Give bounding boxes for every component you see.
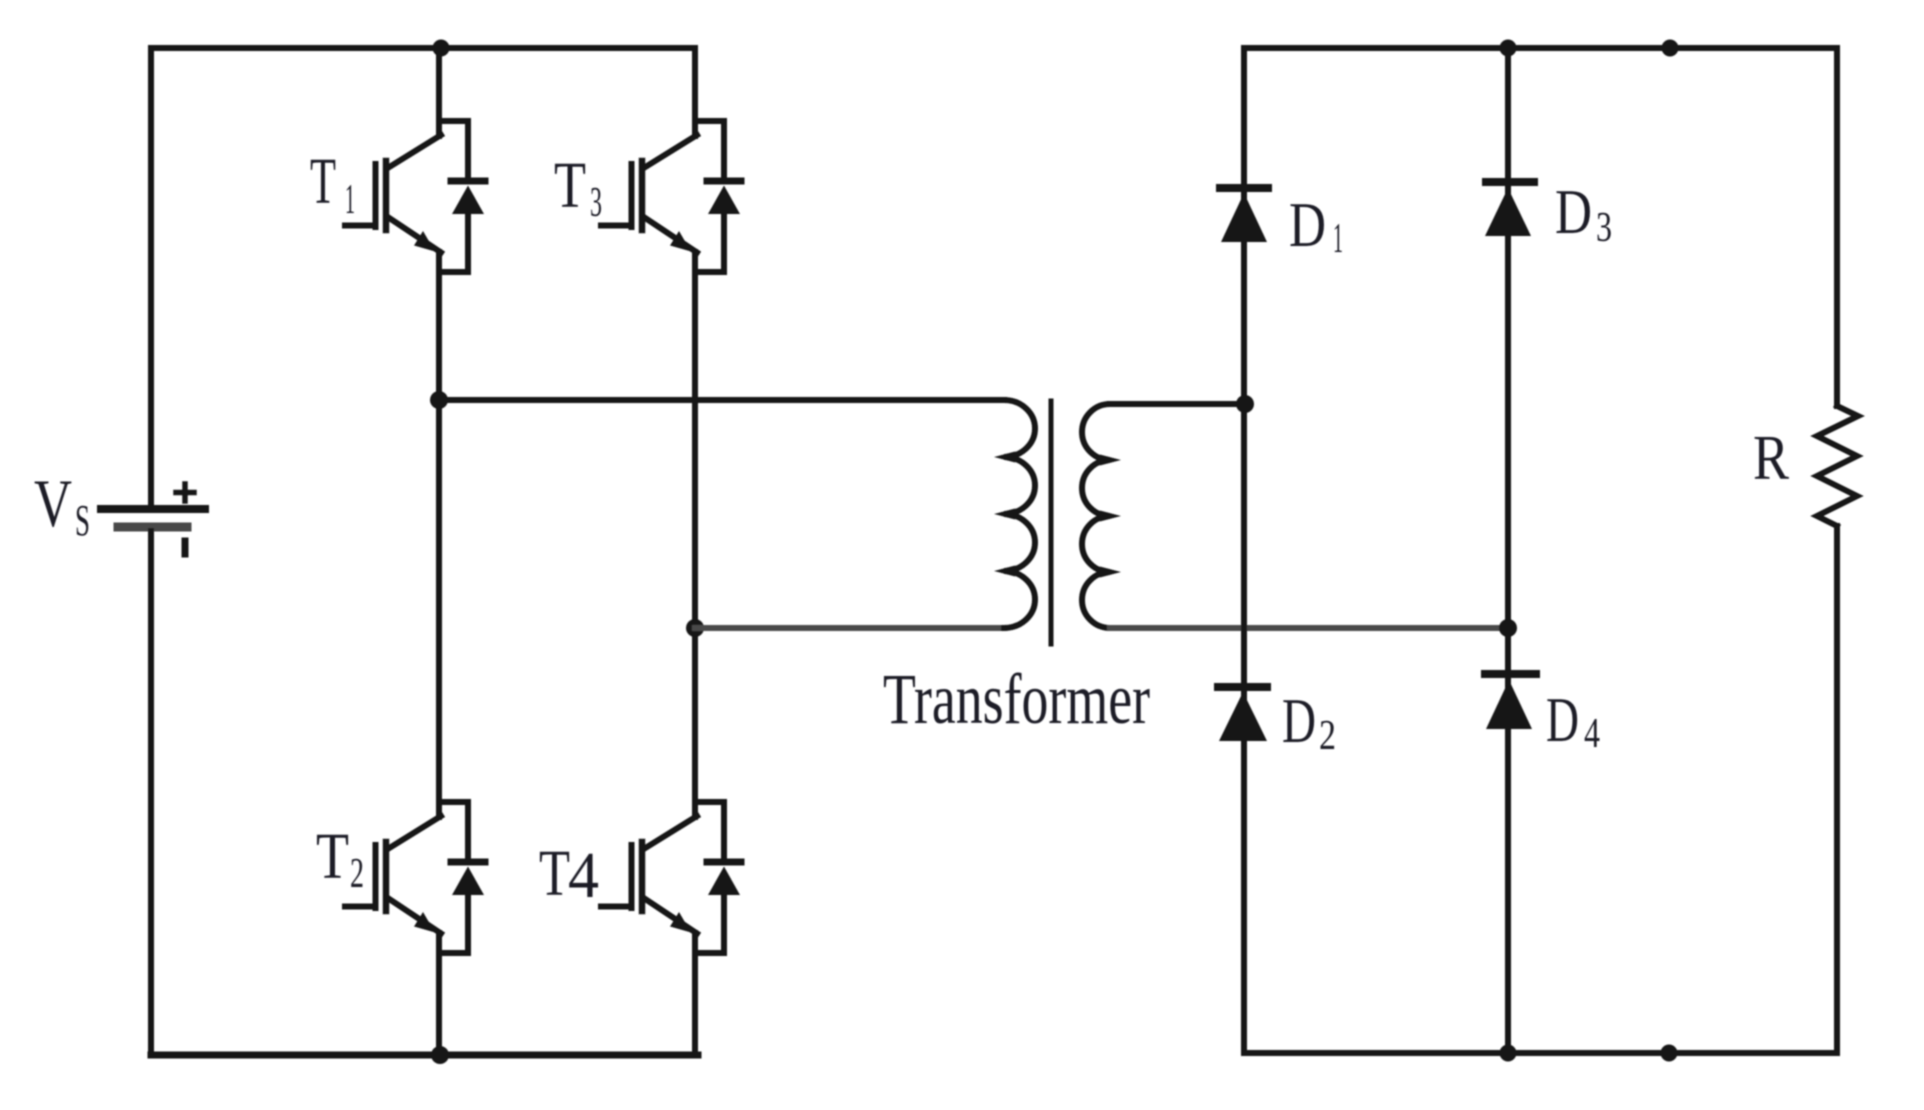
transistor T2 <box>345 802 485 953</box>
transformer core <box>1049 401 1054 644</box>
svg-text:D: D <box>1289 189 1326 260</box>
wire rail T3 T4 lower <box>692 933 698 1055</box>
svg-text:2: 2 <box>350 851 364 897</box>
transformer secondary winding <box>1082 404 1110 628</box>
node A junction T1 rail top <box>433 40 450 57</box>
svg-text:3: 3 <box>590 180 602 226</box>
diode D3 <box>1485 182 1534 236</box>
svg-text:D: D <box>1555 176 1592 247</box>
svg-text:T: T <box>554 149 586 222</box>
svg-text:4: 4 <box>568 839 599 912</box>
wire rail T3 T4 middle <box>692 252 698 817</box>
wire bottom left <box>151 1052 698 1059</box>
node junction bottom right extra <box>1661 1045 1678 1062</box>
node junction secondary top <box>1236 395 1254 413</box>
diode D2 <box>1218 687 1267 741</box>
wire secondary top <box>1110 401 1244 407</box>
transformer secondary cusp darts <box>1100 455 1121 578</box>
transformer primary winding <box>1004 400 1035 628</box>
wire node A to primary <box>439 397 1004 403</box>
transistor T4 <box>601 802 741 953</box>
svg-text:T: T <box>539 837 570 910</box>
svg-text:V: V <box>34 465 72 541</box>
wire left rail lower <box>148 531 154 1055</box>
svg-text:T: T <box>316 820 349 893</box>
node junction top right extra <box>1662 40 1679 57</box>
svg-text:S: S <box>75 496 90 545</box>
wire rail D1 D2 <box>1241 48 1247 1053</box>
wire right rail upper <box>1834 48 1840 406</box>
diode D1 <box>1220 188 1268 242</box>
transistor T1 <box>345 121 485 272</box>
resistor R <box>1817 406 1858 526</box>
svg-text:D: D <box>1282 685 1316 756</box>
node A junction mid left <box>430 391 448 409</box>
svg-text:R: R <box>1753 422 1789 493</box>
node B junction mid right <box>686 619 704 637</box>
wire rail T1 T2 lower <box>436 933 442 1055</box>
wire node B to primary bottom <box>695 625 1004 631</box>
diode D4 <box>1485 674 1536 729</box>
svg-text:2: 2 <box>1319 713 1336 759</box>
wire top right <box>1244 45 1837 51</box>
wire right rail lower <box>1834 526 1840 1053</box>
node junction bottom D3 rail <box>1500 1045 1517 1062</box>
transistor T3 <box>601 121 741 272</box>
node junction secondary bottom <box>1499 619 1517 637</box>
wire top left <box>151 45 695 51</box>
svg-text:Transformer: Transformer <box>883 659 1150 739</box>
wire secondary bottom <box>1110 625 1508 631</box>
node junction top D3 rail <box>1500 40 1517 57</box>
wire rail D3 D4 <box>1505 48 1511 1053</box>
wire bottom right <box>1244 1050 1837 1056</box>
svg-text:1: 1 <box>345 177 355 223</box>
svg-text:4: 4 <box>1584 711 1600 757</box>
svg-text:T: T <box>310 145 336 218</box>
svg-text:1: 1 <box>1333 216 1343 262</box>
wire rail T3 T4 upper <box>692 48 698 136</box>
wire rail T1 T2 middle <box>436 252 442 817</box>
transformer primary cusp darts <box>994 452 1015 577</box>
wire rail T1 T2 upper <box>436 48 442 136</box>
svg-text:D: D <box>1546 684 1579 755</box>
wire left rail upper <box>148 48 154 505</box>
battery Vs <box>101 484 205 554</box>
node junction bottom T2 rail <box>431 1046 449 1064</box>
svg-text:3: 3 <box>1596 205 1612 251</box>
